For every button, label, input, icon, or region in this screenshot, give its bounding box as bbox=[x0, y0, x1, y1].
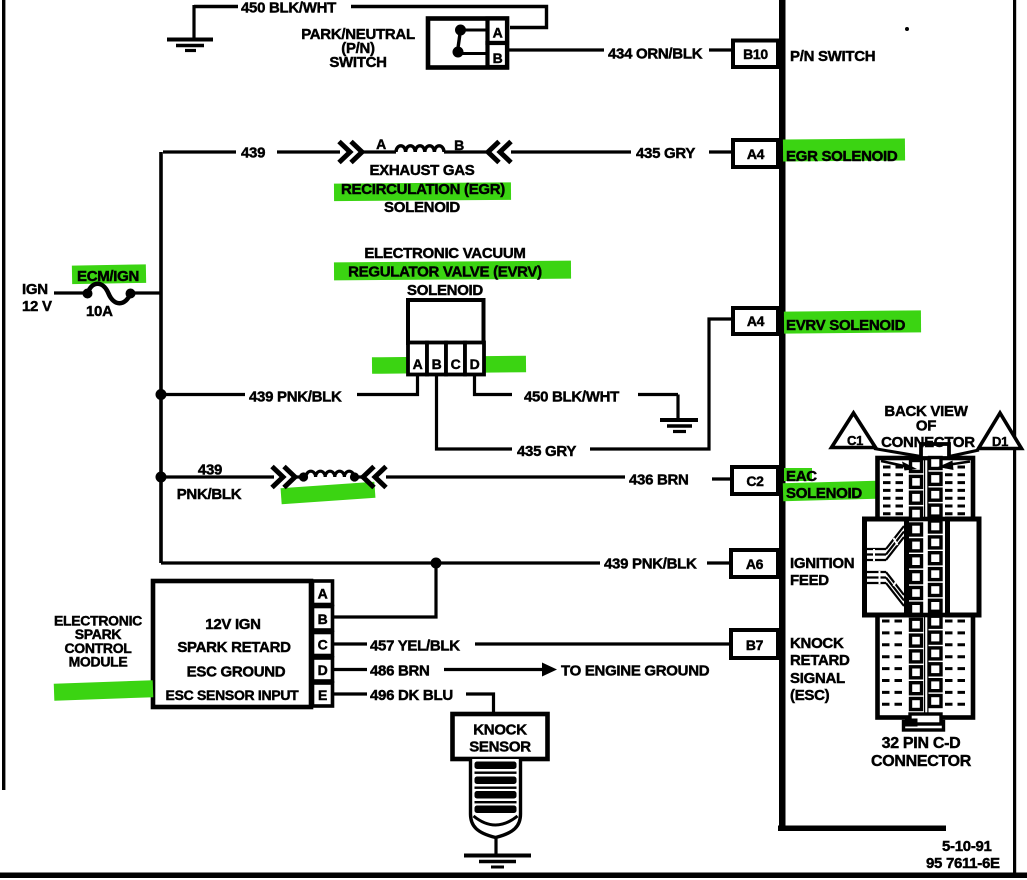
wire 439 PNK/BLK to pin A bbox=[357, 374, 418, 395]
svg-text:A: A bbox=[413, 356, 423, 372]
svg-text:D: D bbox=[470, 356, 480, 372]
svg-text:450 BLK/WHT: 450 BLK/WHT bbox=[241, 0, 336, 17]
svg-text:434 ORN/BLK: 434 ORN/BLK bbox=[608, 46, 703, 63]
svg-text:TO ENGINE GROUND: TO ENGINE GROUND bbox=[561, 663, 710, 680]
sensor KS1 knock sensor box bbox=[453, 714, 548, 759]
highlight ECM/IGN bbox=[72, 264, 146, 284]
coil L2 EAC solenoid winding with end dots bbox=[299, 472, 308, 481]
ground G2 (EVRV) bbox=[660, 395, 698, 432]
chevrons left-pointing (EAC) bbox=[363, 467, 386, 488]
svg-text:SIGNAL: SIGNAL bbox=[790, 670, 845, 687]
svg-text:10A: 10A bbox=[86, 303, 113, 320]
svg-text:SENSOR: SENSOR bbox=[469, 739, 531, 756]
ground G3 (knock sensor) bbox=[464, 837, 531, 867]
svg-text:B10: B10 bbox=[743, 46, 768, 62]
connector A6 bbox=[731, 550, 778, 577]
svg-text:IGN: IGN bbox=[22, 281, 48, 298]
svg-text:457 YEL/BLK: 457 YEL/BLK bbox=[370, 638, 460, 655]
wire ESC pin C to 457 YEL/BLK bbox=[334, 642, 367, 645]
svg-text:RETARD: RETARD bbox=[790, 652, 850, 669]
svg-text:B: B bbox=[432, 356, 442, 372]
svg-text:CONNECTOR: CONNECTOR bbox=[871, 753, 972, 770]
wire to 435 GRY bbox=[511, 150, 631, 153]
highlight REGULATOR VALVE (EVRV) bbox=[334, 261, 571, 281]
wire vertical bus left bbox=[159, 152, 163, 563]
wire into A6 bbox=[707, 561, 731, 564]
pin box C (ESC) bbox=[313, 633, 333, 656]
highlight EGR SOLENOID bbox=[783, 138, 905, 161]
coil L1 EGR solenoid winding bbox=[396, 146, 444, 152]
highlight under EAC coil bbox=[281, 482, 376, 505]
connector A4 (EGR) bbox=[733, 140, 778, 167]
connector pins 32x bbox=[911, 461, 922, 472]
svg-text:435 GRY: 435 GRY bbox=[636, 145, 695, 162]
svg-text:SPARK RETARD: SPARK RETARD bbox=[177, 639, 291, 656]
junction dot on bus (EAC row) bbox=[156, 472, 167, 483]
svg-text:EAC: EAC bbox=[786, 468, 817, 485]
solenoid U1 EVRV body box bbox=[408, 300, 484, 343]
connector top shell bbox=[878, 458, 974, 519]
svg-text:P/N SWITCH: P/N SWITCH bbox=[790, 48, 875, 65]
fuse F1 10A bbox=[83, 284, 136, 304]
wire IGN to fuse bbox=[54, 291, 84, 294]
arrow wing from D1 to cap bbox=[949, 450, 979, 457]
svg-text:SOLENOID: SOLENOID bbox=[407, 282, 483, 299]
wire 457 YEL/BLK into B7 bbox=[475, 642, 731, 645]
svg-text:436 BRN: 436 BRN bbox=[629, 472, 689, 489]
knock sensor body bbox=[471, 759, 521, 838]
module U2 ESC box bbox=[153, 581, 311, 707]
wire 450 BLK/WHT top bbox=[194, 5, 238, 8]
wire fuse to bus bbox=[134, 291, 162, 294]
svg-text:B7: B7 bbox=[746, 637, 764, 653]
wire A6 row from bus bbox=[161, 561, 600, 564]
wire EAC to 436 BRN bbox=[386, 475, 625, 478]
wire bus to 439 PNK/BLK label bbox=[161, 393, 245, 396]
triangle marker D1 bbox=[979, 413, 1022, 449]
connector center divider bbox=[925, 458, 928, 716]
svg-text:SOLENOID: SOLENOID bbox=[384, 199, 460, 216]
svg-text:496 DK BLU: 496 DK BLU bbox=[370, 687, 453, 704]
connector top dashes bbox=[883, 467, 968, 514]
wire 439 to EGR connector chevrons bbox=[277, 150, 340, 153]
svg-text:439 PNK/BLK: 439 PNK/BLK bbox=[604, 556, 697, 573]
pin box D (EVRV) bbox=[465, 343, 484, 375]
highlight EVRV SOLENOID bbox=[784, 310, 921, 333]
knock sensor inner bowl arc bbox=[474, 816, 518, 825]
chevrons right-pointing (EAC) bbox=[272, 467, 295, 488]
junction dot on bus (439 PNK/BLK row) bbox=[156, 389, 167, 400]
svg-text:E: E bbox=[318, 687, 327, 703]
svg-text:439 PNK/BLK: 439 PNK/BLK bbox=[249, 389, 342, 406]
svg-text:C: C bbox=[318, 637, 328, 653]
ECM boundary line bbox=[779, 0, 786, 830]
svg-text:SWITCH: SWITCH bbox=[329, 54, 386, 71]
svg-text:5-10-91: 5-10-91 bbox=[942, 838, 992, 855]
wire 434 ORN/BLK bbox=[509, 48, 604, 51]
svg-text:A: A bbox=[318, 586, 328, 602]
wire 496 DK BLU to knock sensor bbox=[466, 694, 494, 714]
svg-text:CONNECTOR: CONNECTOR bbox=[881, 434, 975, 451]
wire pin D to 450 BLK/WHT bbox=[475, 374, 513, 395]
svg-text:A6: A6 bbox=[746, 556, 764, 572]
pin box D (ESC) bbox=[313, 658, 333, 681]
svg-text:FEED: FEED bbox=[790, 572, 829, 589]
arrow from D1 to connector pin bbox=[938, 461, 970, 471]
wire into C2 bbox=[712, 477, 732, 480]
wire ESC pin D to 486 BRN bbox=[334, 668, 367, 671]
svg-text:KNOCK: KNOCK bbox=[790, 635, 844, 652]
connector top cap tab bbox=[921, 444, 949, 458]
svg-text:MODULE: MODULE bbox=[69, 654, 128, 670]
switch lever and contacts bbox=[453, 25, 487, 57]
wire fan hatch in left box bbox=[867, 526, 904, 606]
highlight under ESC module label bbox=[54, 680, 154, 700]
label BACK VIEW OF CONNECTOR bbox=[881, 403, 975, 451]
wire 486 BRN with arrow bbox=[444, 668, 543, 671]
pin box B (EVRV) bbox=[427, 343, 446, 375]
junction dot (A6 row to ESC) bbox=[431, 558, 442, 569]
svg-text:EXHAUST GAS: EXHAUST GAS bbox=[369, 162, 474, 179]
pin box C (EVRV) bbox=[446, 343, 465, 375]
pin box A (EVRV) bbox=[408, 343, 427, 375]
svg-text:SOLENOID: SOLENOID bbox=[786, 485, 862, 502]
triangle marker C1 bbox=[832, 413, 876, 448]
pin box B (ESC) bbox=[313, 607, 333, 631]
highlight SOLENOID (EAC) bbox=[783, 481, 876, 501]
svg-text:D1: D1 bbox=[992, 434, 1008, 449]
connector bottom tab bbox=[904, 722, 944, 731]
highlight EAC bbox=[784, 468, 812, 481]
speck dot bbox=[905, 27, 909, 31]
svg-text:ESC SENSOR INPUT: ESC SENSOR INPUT bbox=[166, 687, 300, 703]
wire ESC pin E to 496 DK BLU bbox=[334, 692, 367, 695]
svg-text:ESC GROUND: ESC GROUND bbox=[187, 664, 286, 681]
svg-text:OF: OF bbox=[916, 418, 936, 435]
connector bottom shell bbox=[878, 615, 974, 718]
svg-text:435 GRY: 435 GRY bbox=[517, 443, 576, 460]
arrowhead to engine ground bbox=[542, 663, 557, 677]
svg-text:ELECTRONIC VACUUM: ELECTRONIC VACUUM bbox=[364, 245, 525, 262]
svg-text:439: 439 bbox=[241, 145, 265, 162]
connector B10 bbox=[733, 41, 778, 68]
pin box A (ESC) bbox=[313, 581, 333, 605]
svg-text:REGULATOR VALVE (EVRV): REGULATOR VALVE (EVRV) bbox=[348, 264, 542, 281]
svg-text:95 7611-6E: 95 7611-6E bbox=[926, 855, 1000, 872]
svg-text:486 BRN: 486 BRN bbox=[370, 663, 430, 680]
border frame bottom bbox=[0, 873, 1027, 879]
pin box E (ESC) bbox=[313, 683, 333, 706]
ECM bottom edge wire bbox=[778, 826, 946, 832]
connector A4 (EVRV) bbox=[733, 308, 778, 334]
wire into A4 EGR bbox=[709, 150, 733, 153]
arrow wing from C1 to cap bbox=[874, 449, 921, 457]
highlight RECIRCULATION (EGR) bbox=[334, 182, 511, 201]
svg-text:KNOCK: KNOCK bbox=[473, 722, 527, 739]
arrow from C1 to connector pin bbox=[881, 461, 917, 471]
svg-text:B: B bbox=[493, 50, 503, 66]
chevrons left-pointing (EGR) bbox=[488, 142, 511, 163]
svg-text:RECIRCULATION (EGR): RECIRCULATION (EGR) bbox=[341, 181, 505, 198]
svg-text:C1: C1 bbox=[847, 433, 863, 448]
knock sensor slats bbox=[475, 762, 517, 814]
switch S1 P/N switch box bbox=[428, 19, 507, 68]
svg-text:IGNITION: IGNITION bbox=[790, 555, 854, 572]
connector middle left box bbox=[865, 519, 907, 615]
wire from label to P/N switch pin A bbox=[351, 7, 547, 28]
border frame left bbox=[2, 0, 5, 790]
svg-text:12V IGN: 12V IGN bbox=[205, 616, 260, 633]
highlight EVRV pin row bbox=[372, 356, 526, 374]
connector bottom tab black block bbox=[905, 719, 918, 727]
pin box A of P/N switch bbox=[488, 19, 508, 44]
chevrons right-pointing (EGR) bbox=[339, 142, 362, 163]
svg-text:12 V: 12 V bbox=[22, 298, 52, 315]
svg-text:B: B bbox=[318, 611, 328, 627]
wire 439 EGR row left bbox=[163, 150, 236, 153]
svg-text:450 BLK/WHT: 450 BLK/WHT bbox=[524, 389, 619, 406]
svg-text:C2: C2 bbox=[746, 473, 764, 489]
connector bottom dashes bbox=[882, 621, 969, 704]
svg-text:EGR SOLENOID: EGR SOLENOID bbox=[786, 148, 898, 165]
svg-text:C: C bbox=[451, 356, 461, 372]
svg-text:D: D bbox=[318, 662, 328, 678]
svg-text:A: A bbox=[493, 25, 503, 41]
svg-text:(ESC): (ESC) bbox=[790, 687, 830, 704]
svg-text:A: A bbox=[376, 136, 386, 152]
wire junction down to ESC pin B bbox=[334, 563, 436, 617]
ground G1 top left bbox=[167, 5, 213, 51]
svg-text:A4: A4 bbox=[747, 313, 765, 329]
svg-text:A4: A4 bbox=[747, 146, 765, 162]
svg-text:EVRV SOLENOID: EVRV SOLENOID bbox=[786, 317, 906, 334]
wire 435 GRY up to A4 EVRV bbox=[590, 319, 733, 449]
connector C2 bbox=[732, 467, 778, 494]
svg-text:PNK/BLK: PNK/BLK bbox=[177, 486, 242, 503]
svg-text:32 PIN C-D: 32 PIN C-D bbox=[882, 735, 961, 752]
pin box B of P/N switch bbox=[488, 43, 508, 67]
connector B7 bbox=[731, 630, 778, 658]
hatch ticks bbox=[874, 538, 898, 586]
wire 450 BLK/WHT to ground bbox=[638, 393, 678, 396]
connector middle right box bbox=[948, 519, 980, 615]
wire into B10 bbox=[709, 48, 733, 51]
wire bus to EAC chevrons bbox=[161, 475, 274, 478]
wire pin B to 435 GRY bbox=[437, 374, 513, 449]
border frame right bbox=[1013, 0, 1016, 877]
wire into coil (EGR) bbox=[362, 150, 486, 153]
svg-text:ECM/IGN: ECM/IGN bbox=[77, 268, 139, 285]
